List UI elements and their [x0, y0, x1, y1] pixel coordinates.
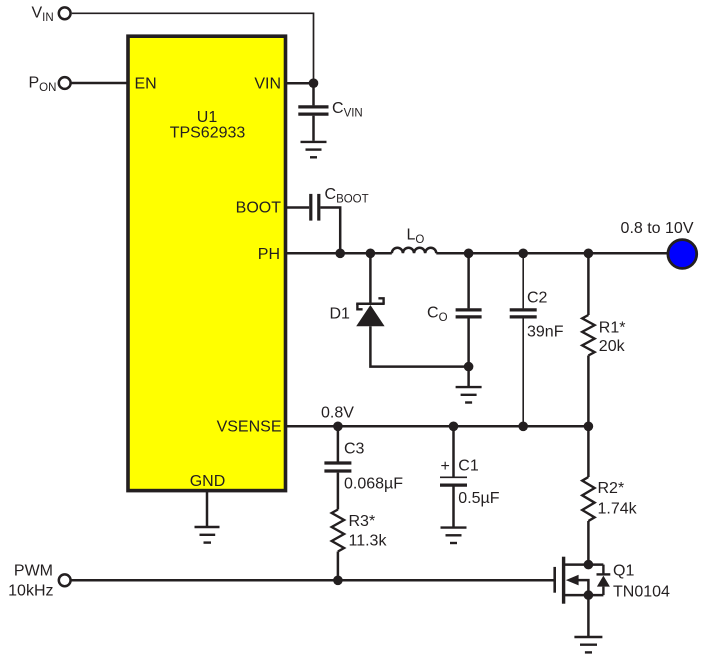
wire CO to ground node [467, 319, 470, 387]
wire VSENSE node to R2 [587, 426, 590, 477]
svg-text:0.8 to 10V: 0.8 to 10V [621, 220, 694, 237]
resistor R3 11.3k [332, 510, 388, 552]
svg-text:CVIN: CVIN [332, 100, 363, 120]
wire PH node to CO [467, 253, 470, 308]
node Q1 source junction [584, 590, 594, 600]
svg-text:C2: C2 [527, 290, 548, 307]
wire D1 branch from PH [369, 253, 372, 303]
node CBOOT junction on PH [335, 249, 345, 259]
svg-text:LO: LO [407, 227, 425, 247]
svg-text:EN: EN [135, 75, 157, 92]
node CO D1 ground junction [464, 362, 474, 372]
capacitor CBOOT [311, 186, 369, 221]
capacitor C1 0.5uF polarized [440, 457, 500, 507]
node C2 junction on PH [518, 249, 528, 259]
wire PWM to Q1 gate [71, 579, 555, 582]
svg-text:GND: GND [190, 473, 226, 490]
wire VSENSE node to C1 [452, 426, 455, 476]
svg-text:11.3k: 11.3k [349, 533, 388, 550]
transistor Q1 TN0104 [555, 557, 670, 604]
svg-text:PH: PH [258, 246, 280, 263]
wire R1 to VSENSE node [587, 356, 590, 427]
terminal PON input [29, 74, 71, 94]
terminal VIN input [32, 4, 71, 24]
node R3 junction on PWM [333, 576, 343, 586]
svg-text:TPS62933: TPS62933 [170, 125, 246, 142]
svg-text:20k: 20k [599, 338, 626, 355]
node C3 junction on VSENSE [333, 422, 343, 432]
svg-text:CO: CO [427, 304, 448, 324]
wire PH net [286, 252, 392, 255]
wire R3 to PWM node [337, 552, 340, 580]
svg-text:C3: C3 [344, 440, 365, 457]
node C2 junction on VSENSE [518, 422, 528, 432]
wire VIN node to CVIN [312, 83, 315, 105]
svg-text:R2*: R2* [598, 480, 625, 497]
ground CO [456, 387, 482, 402]
inductor LO [392, 227, 437, 254]
svg-text:0.068µF: 0.068µF [344, 475, 403, 492]
svg-text:PON: PON [29, 74, 57, 94]
node Q1 drain junction [584, 560, 594, 570]
node C1 junction on VSENSE [449, 422, 459, 432]
terminal PWM input [8, 563, 70, 600]
wire C2 upper stem [522, 253, 524, 308]
ground Q1 [574, 637, 602, 652]
wire CBOOT to PH node [320, 208, 340, 251]
capacitor C3 0.068uF [324, 440, 403, 492]
svg-text:VIN: VIN [254, 75, 281, 92]
node CO junction on PH [464, 249, 474, 259]
svg-text:U1: U1 [197, 109, 218, 126]
wire VSENSE node to C3 [337, 426, 340, 461]
node D1 junction on PH [366, 249, 376, 259]
wire PH node to R1 [587, 253, 590, 315]
svg-text:PWM: PWM [14, 563, 53, 580]
wire R2 to Q1 drain [587, 521, 590, 565]
node R2 junction on VSENSE [584, 422, 594, 432]
diode D1 schottky [330, 298, 385, 326]
terminal output 0.8 to 10V [621, 220, 697, 268]
ground CVIN [301, 142, 327, 157]
wire VIN input to VIN pin node [72, 13, 314, 80]
svg-text:R1*: R1* [599, 319, 626, 336]
resistor R1 20k [582, 315, 625, 356]
node VIN junction [309, 78, 319, 88]
svg-text:CBOOT: CBOOT [325, 186, 369, 206]
svg-text:10kHz: 10kHz [8, 582, 53, 599]
resistor R2 1.74k [582, 477, 637, 521]
svg-text:0.8V: 0.8V [321, 404, 354, 421]
capacitor CVIN [298, 100, 362, 120]
wire VSENSE net [286, 425, 589, 428]
wire Q1 source to ground [587, 595, 590, 636]
node R1 junction on PH [584, 249, 594, 259]
wire PON to EN pin [71, 82, 128, 85]
svg-text:+: + [441, 458, 450, 475]
ground C1 [441, 528, 467, 543]
svg-text:TN0104: TN0104 [613, 583, 670, 600]
wire C2 lower stem to VSENSE [522, 319, 524, 427]
svg-text:1.74k: 1.74k [598, 500, 638, 517]
svg-text:BOOT: BOOT [236, 200, 282, 217]
svg-text:0.5µF: 0.5µF [458, 490, 499, 507]
wire BOOT pin stub [286, 206, 310, 209]
wire CVIN to ground [312, 116, 315, 141]
wire C1 to ground [452, 487, 455, 527]
wire D1 anode to CO bottom [370, 326, 468, 366]
svg-text:R3*: R3* [349, 513, 376, 530]
capacitor C2 39nF [510, 290, 564, 341]
wire C3 to R3 [337, 473, 340, 510]
wire VIN pin stub [286, 82, 314, 85]
svg-text:VIN: VIN [32, 4, 54, 24]
capacitor CO [427, 304, 482, 324]
svg-text:VSENSE: VSENSE [217, 419, 282, 436]
svg-text:Q1: Q1 [613, 563, 634, 580]
ground U1 GND [195, 492, 220, 543]
op-amp U1 TPS62933 body [128, 36, 286, 490]
svg-text:C1: C1 [458, 457, 479, 474]
wire LO to output terminal [436, 252, 667, 255]
svg-text:39nF: 39nF [527, 324, 564, 341]
svg-text:D1: D1 [330, 305, 351, 322]
